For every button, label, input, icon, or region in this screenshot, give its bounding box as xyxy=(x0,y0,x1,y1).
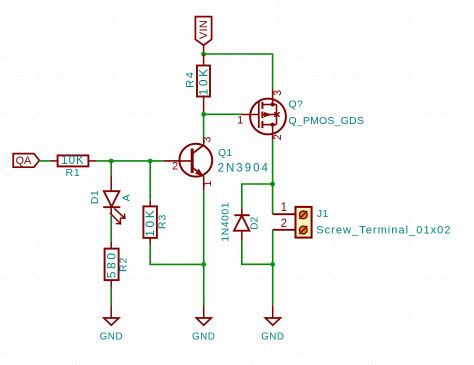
junction VIN node xyxy=(201,52,206,57)
svg-text:VIN: VIN xyxy=(198,20,210,39)
wire J1 pin2 to GND node xyxy=(272,230,274,264)
svg-text:Q1: Q1 xyxy=(218,147,232,159)
junction GND node right xyxy=(270,262,275,267)
wire D1 to R2 xyxy=(110,215,112,242)
wire VIN stem xyxy=(203,45,205,54)
wire Q2 drain node to J1 pin1 xyxy=(272,184,274,214)
resistor R2 xyxy=(105,242,130,287)
svg-text:R2: R2 xyxy=(118,257,130,272)
wire R4 junction to Q2 gate xyxy=(204,113,242,115)
svg-text:R4: R4 xyxy=(184,71,196,88)
ground GND3 xyxy=(261,305,284,342)
global label QA xyxy=(13,154,39,168)
svg-text:Screw_Terminal_01x02: Screw_Terminal_01x02 xyxy=(316,224,451,236)
junction node D1 top xyxy=(109,159,114,164)
svg-text:GND: GND xyxy=(100,332,123,343)
wire Q1 emitter down xyxy=(203,190,205,305)
svg-text:Q_PMOS_GDS: Q_PMOS_GDS xyxy=(289,115,365,127)
resistor R4 xyxy=(184,54,210,114)
wire R1 to Q1 base xyxy=(96,160,164,162)
transistor Q1 2N3904 xyxy=(164,137,270,191)
wire D1 branch top xyxy=(110,161,112,176)
resistor R1 xyxy=(50,155,97,179)
svg-text:D2: D2 xyxy=(250,216,261,229)
wire node to D2 top xyxy=(242,184,273,208)
diode D2 1N4001 xyxy=(219,202,260,242)
wire GND node down xyxy=(272,264,274,305)
svg-text:GND: GND xyxy=(261,332,284,343)
svg-text:3: 3 xyxy=(272,90,284,96)
svg-text:2N3904: 2N3904 xyxy=(218,162,270,174)
svg-text:1: 1 xyxy=(281,202,287,214)
svg-text:1N4001: 1N4001 xyxy=(219,202,231,242)
svg-text:GND: GND xyxy=(192,332,215,343)
junction R4 bottom xyxy=(201,112,206,117)
power label VIN xyxy=(195,17,211,46)
ground GND2 xyxy=(192,305,215,342)
svg-text:10K: 10K xyxy=(61,155,84,167)
svg-text:2: 2 xyxy=(172,160,178,172)
svg-text:1: 1 xyxy=(202,180,214,186)
wire R3 bottom to emitter node xyxy=(150,245,204,265)
svg-text:3: 3 xyxy=(202,137,214,143)
junction Q2 drain node xyxy=(270,182,275,187)
svg-text:J1: J1 xyxy=(317,208,329,220)
junction node R3 top xyxy=(148,159,153,164)
svg-text:Q?: Q? xyxy=(289,98,304,110)
transistor Q2 Q_PMOS_GDS xyxy=(237,90,364,141)
junction emitter node xyxy=(201,262,206,267)
svg-text:2: 2 xyxy=(272,134,284,140)
LED D1 xyxy=(89,176,133,224)
svg-text:QA: QA xyxy=(16,155,32,167)
wire R3 branch top xyxy=(149,161,151,200)
wire R2 to GND xyxy=(110,287,112,306)
wire R4 junction down to Q1 collector xyxy=(203,114,205,139)
wire VIN junction to top-right corner xyxy=(204,54,273,90)
connector J1 Screw_Terminal_01x02 xyxy=(273,202,452,237)
svg-text:A: A xyxy=(121,194,133,201)
wire Q2 drain down to J1 node xyxy=(272,140,274,184)
wire D2 bottom to GND node xyxy=(242,241,273,265)
resistor R3 xyxy=(143,200,169,244)
svg-text:R3: R3 xyxy=(157,214,169,229)
svg-text:2: 2 xyxy=(281,218,287,230)
wire QA to R1 xyxy=(39,160,49,162)
svg-text:D1: D1 xyxy=(89,190,101,204)
svg-text:10K: 10K xyxy=(143,208,157,237)
svg-text:R1: R1 xyxy=(65,167,80,179)
svg-text:10K: 10K xyxy=(196,66,210,95)
ground GND1 xyxy=(100,305,123,342)
svg-text:580: 580 xyxy=(105,250,119,278)
svg-text:1: 1 xyxy=(237,115,243,127)
